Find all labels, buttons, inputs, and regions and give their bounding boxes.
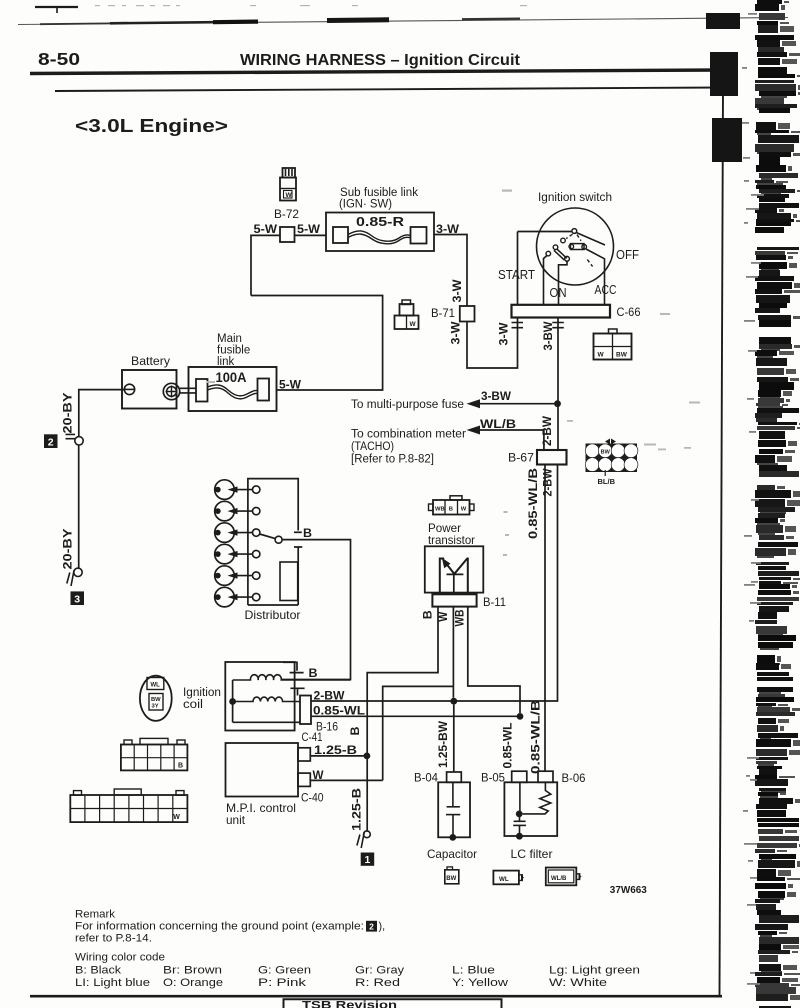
svg-text:W: W xyxy=(461,507,467,513)
wire W from C-40 xyxy=(310,779,382,781)
transistor symbol xyxy=(440,558,468,595)
connector icon B-67 xyxy=(585,439,638,477)
switch contact (3) xyxy=(546,251,551,256)
svg-text:W: W xyxy=(286,192,293,199)
svg-text:(IGN· SW): (IGN· SW) xyxy=(339,199,392,211)
svg-text:0.85-WL/B: 0.85-WL/B xyxy=(531,700,543,774)
wire 0.85-WL net xyxy=(311,715,520,717)
LC filter capacitor C2 xyxy=(513,782,526,834)
connector B-05 pin xyxy=(512,771,527,782)
LC filter inductor L1 xyxy=(523,782,551,814)
ground marks (3) xyxy=(67,571,74,587)
svg-text:BW: BW xyxy=(446,876,456,882)
svg-text:WB: WB xyxy=(455,610,467,627)
LC filter box xyxy=(504,782,557,836)
connector B-11 bar xyxy=(432,594,476,606)
spark plug 1 xyxy=(215,480,260,500)
distributor rotor arm xyxy=(260,534,276,539)
fusible link element F1 xyxy=(196,379,269,402)
connector icon BW (small) xyxy=(445,867,459,884)
svg-text:Gr: Gray: Gr: Gray xyxy=(355,965,405,977)
distributor rotor contact xyxy=(275,536,282,543)
svg-text:To combination meter: To combination meter xyxy=(351,429,466,441)
wire 3-W jog to C-66 xyxy=(467,318,518,369)
svg-text:0.85-WL: 0.85-WL xyxy=(503,723,515,769)
svg-text:BW: BW xyxy=(601,450,611,456)
svg-text:transistor: transistor xyxy=(428,533,475,547)
connector B-16 xyxy=(300,696,311,725)
svg-text:[Refer to P.8-82]: [Refer to P.8-82] xyxy=(351,454,434,466)
TSB Revision box xyxy=(284,999,502,1008)
scan artifact: top-left mark xyxy=(35,6,78,13)
capacitor box B-04 xyxy=(438,782,470,837)
wire 0.85-WL/B from B-67 to B-06 xyxy=(544,465,546,772)
svg-text:100A: 100A xyxy=(216,370,247,385)
ignition switch feed wire xyxy=(518,231,572,233)
svg-text:1.25-B: 1.25-B xyxy=(314,743,357,757)
svg-text:Capacitor: Capacitor xyxy=(427,847,477,861)
inline connector on 5-W wire xyxy=(280,227,295,242)
svg-text:B: B xyxy=(423,610,435,619)
sub fusible link box xyxy=(326,213,434,252)
svg-text:C-66: C-66 xyxy=(617,307,641,319)
wire 3-BW from C-66 xyxy=(557,318,559,451)
switch wiper bar xyxy=(554,249,567,260)
svg-text:3-W: 3-W xyxy=(452,279,464,302)
coil internal junction xyxy=(229,698,236,705)
wire 5-W to sub fusible link xyxy=(295,234,327,236)
remark ground tag 2 xyxy=(366,921,377,932)
spark plug 5 xyxy=(215,566,260,586)
wire to capacitor xyxy=(453,705,455,772)
coil secondary winding xyxy=(233,675,351,680)
connector icon (2x8, W) xyxy=(70,789,187,822)
ground tag 2 xyxy=(44,434,58,448)
svg-text:2-BW: 2-BW xyxy=(543,468,555,496)
switch bar element xyxy=(571,244,585,250)
main fusible link box xyxy=(189,367,277,411)
connector icon WL xyxy=(493,871,524,885)
svg-text:WIRING HARNESS – Ignition Circ: WIRING HARNESS – Ignition Circuit xyxy=(240,52,520,69)
svg-text:B-06: B-06 xyxy=(562,773,586,785)
arrowhead combination meter xyxy=(467,426,481,435)
ground point circle (2) xyxy=(75,437,83,445)
ground tag 3 xyxy=(71,591,85,605)
svg-text:Ignition switch: Ignition switch xyxy=(538,192,612,204)
svg-text:37W663: 37W663 xyxy=(610,885,647,896)
spark plug 2 xyxy=(215,501,260,521)
svg-text:1.25-BW: 1.25-BW xyxy=(438,721,450,768)
connector icon B-71 xyxy=(395,300,419,329)
svg-text:WL: WL xyxy=(151,683,161,689)
svg-text:0.85-R: 0.85-R xyxy=(356,215,404,229)
svg-text:Sub fusible link: Sub fusible link xyxy=(340,187,418,199)
svg-text:5-W: 5-W xyxy=(297,222,321,236)
svg-text:WB: WB xyxy=(435,507,445,513)
connector C-40 pin xyxy=(298,773,310,786)
svg-text:B: B xyxy=(350,727,362,736)
connector B-67 xyxy=(537,450,567,465)
inline break on 3-W below C-66 xyxy=(512,323,524,328)
svg-text:B: B xyxy=(449,507,453,513)
ground point circle (1) xyxy=(364,831,371,838)
frame right border xyxy=(720,88,724,996)
switch bar end contacts xyxy=(569,244,574,249)
connector icon power transistor xyxy=(429,496,475,515)
scan artifact: top dotted smudges xyxy=(95,5,527,6)
inline break on 3-BW below C-66 xyxy=(552,323,564,328)
svg-text:BL/B: BL/B xyxy=(598,477,616,486)
wire START column xyxy=(517,232,519,305)
svg-text:20-BY: 20-BY xyxy=(62,528,74,569)
spark plug 6 xyxy=(215,587,260,607)
scan specks xyxy=(206,190,700,557)
svg-text:3Y: 3Y xyxy=(152,704,159,710)
svg-text:2-BW: 2-BW xyxy=(542,416,554,446)
connector B-71 on wire xyxy=(460,306,475,322)
svg-text:3-W: 3-W xyxy=(436,222,460,236)
svg-text:(TACHO): (TACHO) xyxy=(351,441,394,453)
wire ACC column xyxy=(586,249,605,305)
wire W branch to C-40 xyxy=(383,686,454,780)
svg-text:0.85-WL/B: 0.85-WL/B xyxy=(528,468,540,539)
svg-text:LI: Light blue: LI: Light blue xyxy=(75,977,150,989)
battery positive leads xyxy=(180,388,196,393)
fusible link element F2 xyxy=(333,227,427,244)
wire WB from B-11 to LC filter xyxy=(468,607,520,713)
svg-text:C-40: C-40 xyxy=(301,793,324,805)
svg-text:Wiring color code: Wiring color code xyxy=(75,952,165,964)
header rule xyxy=(30,70,722,74)
svg-text:B: B xyxy=(178,763,183,770)
ground point circle (3) xyxy=(74,568,82,576)
wire battery to ground corner xyxy=(79,390,125,437)
distributor pickup coil xyxy=(280,562,298,601)
svg-text:TSB Revision: TSB Revision xyxy=(302,1000,397,1008)
junction ground net xyxy=(364,753,371,760)
svg-text:B-67: B-67 xyxy=(508,453,534,465)
svg-text:5-W: 5-W xyxy=(254,222,278,236)
color code table xyxy=(75,965,640,990)
svg-text:Lg: Light green: Lg: Light green xyxy=(549,965,640,977)
svg-text:8-50: 8-50 xyxy=(38,49,80,69)
connector icon C-66 xyxy=(594,329,632,360)
svg-text:3-BW: 3-BW xyxy=(481,389,512,403)
scan artifact: long top line xyxy=(18,18,788,25)
switch common contact xyxy=(572,229,577,234)
connector icon B-72 xyxy=(280,168,296,201)
switch dashed segments xyxy=(566,234,581,241)
battery box xyxy=(122,370,177,409)
svg-text:W: W xyxy=(438,612,450,622)
svg-text:B-05: B-05 xyxy=(481,773,505,785)
switch step contact xyxy=(565,256,570,261)
svg-text:Ignition: Ignition xyxy=(183,687,221,699)
M.P.I. control unit box xyxy=(226,743,299,797)
svg-text:2: 2 xyxy=(48,436,54,448)
svg-text:3-W: 3-W xyxy=(451,321,463,344)
junction capacitor tap xyxy=(450,698,457,705)
wire ON column (2) xyxy=(559,261,568,305)
capacitor ground dot xyxy=(449,834,456,841)
svg-text:For information concerning the: For information concerning the ground po… xyxy=(75,921,364,933)
svg-text:2: 2 xyxy=(369,922,374,932)
svg-text:3: 3 xyxy=(74,593,80,605)
svg-text:START: START xyxy=(498,267,535,282)
connector C-66 bar xyxy=(512,305,611,318)
svg-text:ON: ON xyxy=(550,285,567,300)
junction LC filter tap xyxy=(517,713,524,720)
connector B-06 pin xyxy=(538,771,553,782)
svg-text:B-71: B-71 xyxy=(431,308,455,320)
svg-text:Distributor: Distributor xyxy=(245,608,301,622)
svg-text:),: ), xyxy=(379,921,386,933)
connector icon (2x5, B) xyxy=(121,738,187,770)
wire B from B-11 to ground xyxy=(367,607,438,832)
svg-text:WL: WL xyxy=(499,876,509,883)
ignition switch circle xyxy=(537,208,614,285)
coil primary winding xyxy=(233,697,300,701)
svg-text:WL/B: WL/B xyxy=(551,876,567,882)
svg-text:<3.0L Engine>: <3.0L Engine> xyxy=(75,115,228,136)
svg-text:unit: unit xyxy=(226,813,246,827)
svg-text:1.25-B: 1.25-B xyxy=(352,788,364,831)
svg-text:Br: Brown: Br: Brown xyxy=(163,965,222,977)
spark plug 3 xyxy=(215,523,253,543)
capacitor element C1 xyxy=(446,782,460,835)
inline break marks at ground 2 xyxy=(66,434,76,438)
ground tag 1 xyxy=(361,853,375,867)
svg-text:Remark: Remark xyxy=(75,909,116,921)
battery positive terminal xyxy=(163,383,179,399)
junction multi-purpose fuse tap xyxy=(554,400,561,407)
wire W from B-11 xyxy=(452,607,454,698)
wire 1.25-B from C-41 xyxy=(310,755,367,757)
svg-text:P: Pink: P: Pink xyxy=(258,977,307,989)
svg-text:coil: coil xyxy=(183,699,203,711)
svg-text:B: B xyxy=(303,526,312,540)
svg-text:refer to P.8-14.: refer to P.8-14. xyxy=(75,933,152,945)
wire 2-BW net xyxy=(311,465,558,702)
wire 5-W (battery feed loop) xyxy=(251,235,280,295)
coil left bus xyxy=(232,680,234,722)
switch contact (2) xyxy=(553,245,558,250)
svg-text:B: Black: B: Black xyxy=(75,965,122,977)
ignition coil box xyxy=(225,662,294,731)
svg-text:W: W xyxy=(598,352,605,359)
svg-text:5-W: 5-W xyxy=(279,378,302,392)
spark plug 4 xyxy=(215,544,260,564)
svg-text:B: B xyxy=(309,666,318,680)
svg-text:R: Red: R: Red xyxy=(355,977,400,989)
wire B distributor to coil xyxy=(281,540,350,680)
svg-text:LC filter: LC filter xyxy=(511,847,553,861)
svg-text:OFF: OFF xyxy=(616,247,639,262)
connector icon ignition coil xyxy=(140,676,172,721)
svg-text:W: White: W: White xyxy=(549,977,607,989)
distributor rotor terminal xyxy=(253,529,260,536)
arrowhead multi-purpose fuse xyxy=(467,399,481,408)
svg-text:G: Green: G: Green xyxy=(258,965,311,977)
connector B-04 pin xyxy=(447,772,462,782)
coil secondary terminal break xyxy=(283,662,304,672)
svg-text:L: Blue: L: Blue xyxy=(452,965,495,977)
battery negative terminal xyxy=(124,384,134,394)
svg-text:3-BW: 3-BW xyxy=(543,321,555,350)
svg-text:B-72: B-72 xyxy=(274,209,299,221)
svg-text:BW: BW xyxy=(151,697,161,703)
svg-text:0.85-WL: 0.85-WL xyxy=(313,704,365,718)
svg-text:1: 1 xyxy=(364,854,370,866)
LC filter bottom dot xyxy=(516,833,523,840)
svg-text:WL/B: WL/B xyxy=(480,417,516,431)
wire 3-W to ignition switch column xyxy=(434,235,467,307)
switch line to OFF xyxy=(577,233,606,245)
LC filter junction dot xyxy=(516,811,523,818)
svg-text:3-W: 3-W xyxy=(499,322,511,345)
svg-text:W: W xyxy=(173,814,180,821)
svg-text:W: W xyxy=(410,321,417,328)
connector C-41 pin xyxy=(298,748,310,761)
coil primary terminal break xyxy=(290,688,304,695)
wire 5-W loop from main fusible link xyxy=(251,296,383,391)
svg-text:B-04: B-04 xyxy=(414,773,439,785)
svg-text:Battery: Battery xyxy=(131,356,170,368)
footer rule xyxy=(30,995,722,998)
svg-text:Y: Yellow: Y: Yellow xyxy=(452,977,508,989)
ground marks (1) xyxy=(357,833,364,849)
wire ON column xyxy=(544,256,548,305)
svg-text:O: Orange: O: Orange xyxy=(163,977,223,989)
wire WL/B to combination meter xyxy=(478,430,544,450)
svg-text:20-BY: 20-BY xyxy=(62,392,74,433)
svg-text:B-11: B-11 xyxy=(483,597,506,609)
wire to multi-purpose fuse xyxy=(478,403,558,405)
svg-text:BW: BW xyxy=(616,352,628,359)
coil bottom lead xyxy=(233,721,300,723)
power transistor box Q1 xyxy=(425,546,484,592)
svg-text:ACC: ACC xyxy=(595,282,617,297)
wire 20-BY lower xyxy=(78,445,80,568)
frame top rule xyxy=(55,88,723,92)
svg-text:To multi-purpose fuse: To multi-purpose fuse xyxy=(351,399,464,411)
connector icon WL/B xyxy=(546,868,582,886)
switch contact (1) xyxy=(561,238,566,243)
distributor box xyxy=(248,479,302,605)
scan artifact: right binding band xyxy=(706,0,800,1008)
